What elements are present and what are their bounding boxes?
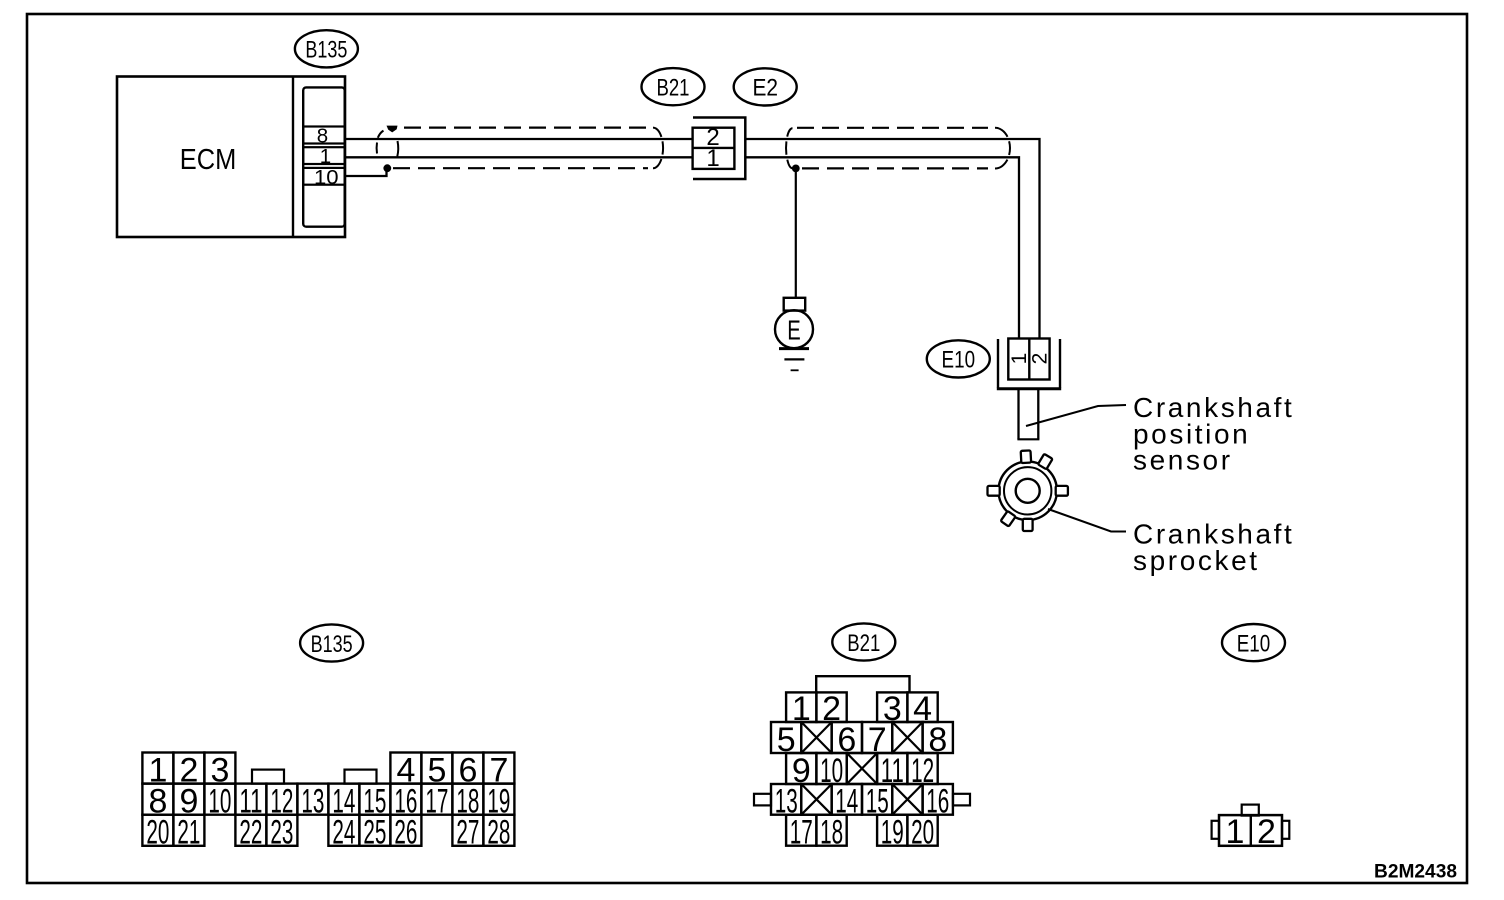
svg-text:25: 25 [363, 814, 386, 852]
svg-text:21: 21 [177, 814, 200, 852]
B21 pin 4 [907, 690, 937, 728]
B135 pin 3 [204, 751, 235, 789]
B21 pin 1 [786, 690, 816, 728]
svg-text:B21: B21 [847, 630, 880, 657]
B21 blocked cell [847, 753, 877, 784]
connector E10 outer [997, 339, 1061, 389]
svg-text:19: 19 [881, 814, 904, 852]
wire shield to ground [795, 168, 797, 298]
svg-text:17: 17 [790, 814, 813, 852]
connector E10 inner box [1008, 339, 1049, 380]
svg-text:10: 10 [208, 783, 231, 821]
B21 pin 7 [862, 721, 892, 759]
svg-text:18: 18 [820, 814, 843, 852]
junction dot shield-ground [792, 165, 800, 173]
label B21 [642, 68, 705, 105]
B135 pin 14 [328, 783, 359, 821]
leader to sensor label [1026, 405, 1126, 426]
B21 key bracket [816, 676, 909, 692]
B135 key bump 1 [252, 770, 284, 784]
shield section 2 right end [995, 128, 1010, 169]
B21 pin 20 [907, 814, 937, 852]
B21 pin 11 [877, 752, 907, 790]
B21 pin 13 [771, 783, 801, 821]
svg-text:B2M2438: B2M2438 [1374, 862, 1457, 883]
B21 pin 19 [877, 814, 907, 852]
svg-text:E: E [787, 314, 801, 345]
svg-text:sensor: sensor [1133, 445, 1233, 476]
svg-text:27: 27 [456, 814, 479, 852]
B135 pin 18 [452, 783, 483, 821]
B135 pin 23 [266, 814, 297, 852]
svg-text:B135: B135 [305, 37, 347, 64]
svg-text:24: 24 [332, 814, 355, 852]
svg-text:2: 2 [1257, 813, 1276, 851]
wire pin10 shield drain [345, 168, 387, 176]
ground E circle [775, 310, 813, 348]
junction dot shield-pin10 [383, 164, 391, 172]
crankshaft sprocket [988, 450, 1068, 531]
B21 right tab [953, 794, 970, 806]
svg-text:ECM: ECM [180, 144, 237, 176]
svg-text:28: 28 [487, 814, 510, 852]
label E2 [734, 68, 797, 105]
B135 pin 2 [173, 751, 204, 789]
B21 blocked cell [801, 784, 831, 815]
shield section 2 top dashed [797, 127, 988, 129]
B135 pin 19 [483, 783, 514, 821]
E10 right tab [1282, 821, 1289, 839]
B135 pin 9 [173, 783, 204, 821]
connector B21 pinout grid [754, 676, 970, 851]
pin 10 cell [303, 166, 345, 189]
wire cell1 rightward [745, 157, 1019, 338]
shield section 1 bottom dashed [393, 167, 648, 169]
B135 pin 5 [421, 751, 452, 789]
B135 pin 4 [390, 751, 421, 789]
svg-text:1: 1 [1225, 813, 1244, 851]
label crankshaft position sensor [1133, 392, 1294, 476]
svg-text:10: 10 [314, 166, 339, 189]
label B21 (pinout) [832, 623, 895, 660]
shield section 1 top dashed [404, 126, 650, 128]
B21 pin 15 [862, 783, 892, 821]
B21 pin 16 [923, 783, 953, 821]
svg-text:22: 22 [239, 814, 262, 852]
svg-text:20: 20 [911, 814, 934, 852]
B21 blocked cell [892, 784, 922, 815]
svg-text:E10: E10 [942, 347, 976, 374]
svg-text:8: 8 [317, 124, 328, 147]
svg-text:23: 23 [270, 814, 293, 852]
shield arrow [387, 126, 398, 133]
svg-text:E2: E2 [752, 75, 778, 102]
label E10 (pinout) [1222, 624, 1285, 661]
B135 pin 22 [235, 814, 266, 852]
pin 8 cell [303, 124, 345, 147]
B135 pin 13 [297, 783, 328, 821]
connector B135 (ECM side) [303, 87, 345, 226]
svg-text:17: 17 [425, 783, 448, 821]
crankshaft position sensor body [1017, 389, 1039, 440]
pin 1 label rotated [1008, 353, 1031, 365]
wire cell2 rightward [745, 139, 1039, 339]
connector E10 pinout [1212, 805, 1290, 851]
pin 1 label [706, 145, 719, 172]
label B135 (pinout) [300, 624, 363, 661]
E10 left tab [1212, 821, 1219, 839]
wire pin8 to connector [345, 138, 693, 140]
B135 pin 26 [390, 814, 421, 852]
B135 key bump 2 [345, 770, 377, 784]
B21 pin 14 [832, 783, 862, 821]
shield section 1 right end [653, 128, 663, 169]
svg-text:B135: B135 [311, 631, 353, 658]
B21 blocked cell [892, 722, 922, 753]
shield section 1 left end [377, 131, 399, 157]
connector B135 pinout grid [142, 751, 514, 851]
B21 pin 10 [816, 752, 846, 790]
label crankshaft sprocket [1133, 519, 1294, 577]
B135 pin 16 [390, 783, 421, 821]
connector B21/E2 inner box [693, 128, 735, 169]
B135 pin 10 [204, 783, 235, 821]
svg-text:2: 2 [1028, 353, 1051, 365]
B21 pin 3 [877, 690, 907, 728]
B135 pin 21 [173, 814, 204, 852]
svg-text:20: 20 [146, 814, 169, 852]
B135 pin 20 [142, 814, 173, 852]
B135 pin 11 [235, 783, 266, 821]
pin 2 label [706, 124, 719, 151]
wire pin1 to connector [345, 156, 693, 158]
B135 pin 8 [142, 783, 173, 821]
B135 pin 17 [421, 783, 452, 821]
label E10 [927, 340, 990, 377]
B135 pin 24 [328, 814, 359, 852]
B21 blocked cell [801, 722, 831, 753]
shield section 2 left end [786, 128, 792, 168]
B21 pin 8 [923, 721, 953, 759]
shield section 2 bottom dashed [802, 167, 988, 169]
B21 pin 2 [816, 690, 846, 728]
svg-text:1: 1 [320, 145, 331, 168]
B21 pin 17 [786, 814, 816, 852]
B135 pin 25 [359, 814, 390, 852]
ground hatch [779, 349, 809, 371]
svg-text:1: 1 [706, 145, 719, 172]
B21 pin 12 [907, 752, 937, 790]
B21 pin 9 [786, 752, 816, 790]
label B135 [295, 30, 358, 67]
connector B21/E2 outer bracket [693, 118, 745, 180]
svg-text:E10: E10 [1237, 630, 1271, 657]
B135 pin 7 [483, 751, 514, 789]
pin 2 label rotated [1028, 353, 1051, 365]
B135 pin 27 [452, 814, 483, 852]
B21 pin 5 [771, 721, 801, 759]
B135 pin 28 [483, 814, 514, 852]
ECM U1 [117, 77, 345, 238]
pin 1 cell [303, 145, 345, 168]
B21 pin 6 [832, 721, 862, 759]
B135 pin 1 [142, 751, 173, 789]
svg-text:sprocket: sprocket [1133, 545, 1260, 576]
B135 pin 12 [266, 783, 297, 821]
ground tab [784, 298, 806, 311]
leader to sprocket label [1048, 509, 1126, 532]
svg-text:B21: B21 [657, 75, 690, 102]
B135 pin 15 [359, 783, 390, 821]
B21 left tab [754, 794, 771, 806]
E10 top tab [1242, 805, 1259, 816]
svg-text:26: 26 [394, 814, 417, 852]
B135 pin 6 [452, 751, 483, 789]
B21 pin 18 [816, 814, 846, 852]
E10 body [1219, 815, 1282, 846]
part number B2M2438 [1374, 862, 1457, 883]
svg-text:13: 13 [301, 783, 324, 821]
